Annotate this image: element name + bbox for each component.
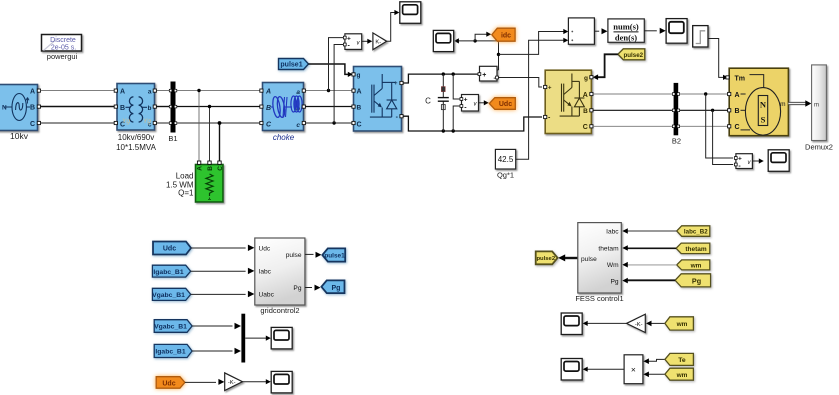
scope5 — [271, 371, 292, 393]
scope1 — [400, 2, 421, 24]
from tag wm (product row) — [665, 368, 694, 380]
wire transformer a to B1 — [157, 90, 171, 92]
svg-text:b: b — [148, 105, 152, 112]
wire choke a to converter A — [306, 90, 353, 92]
wire current meas to machine converter + — [498, 78, 542, 88]
wire pulse1 to converter g — [309, 64, 349, 74]
svg-text:-K-: -K- — [635, 322, 643, 328]
svg-text:S: S — [761, 115, 766, 125]
wire transfer fcn to scope3 — [644, 30, 657, 32]
svg-text:Udc: Udc — [259, 245, 271, 252]
svg-text:Udc: Udc — [162, 380, 175, 387]
wire converter A to B2 — [593, 93, 672, 95]
svg-text:wm: wm — [676, 372, 688, 379]
bus B1 — [169, 82, 177, 133]
current measurement block (idc) — [478, 66, 498, 82]
svg-text:gridcontrol2: gridcontrol2 — [260, 306, 299, 315]
svg-text:+: + — [738, 156, 742, 163]
wire step to machine Tm — [708, 39, 723, 78]
wire Iabc_B2 to FESS — [627, 230, 676, 232]
svg-text:thetam: thetam — [598, 245, 619, 252]
mux bar — [241, 314, 245, 363]
arrowhead into g port (machine conv) — [593, 74, 599, 80]
goto tag pulse2 (bottom) — [536, 251, 558, 264]
scope7 — [561, 359, 582, 381]
voltage measurement block (grid AC) — [343, 34, 361, 50]
arrowhead product in2 — [643, 372, 649, 378]
svg-text:10kv/690v: 10kv/690v — [118, 133, 154, 142]
PMSM machine block — [726, 68, 789, 136]
wire Te tag to product — [649, 359, 665, 361]
gain -K- (left pointing) — [627, 314, 646, 332]
svg-text:-K-: -K- — [228, 380, 236, 386]
goto tag pulse2 (top) — [618, 49, 645, 60]
svg-text:B: B — [207, 166, 214, 171]
gridcontrol2 subsystem — [255, 238, 305, 305]
junction node vmeas top — [452, 72, 455, 75]
junction node wire C to voltage probe — [332, 121, 335, 124]
svg-text:B: B — [30, 105, 35, 112]
svg-text:pulse1: pulse1 — [324, 252, 345, 259]
junction node wire A to voltage probe — [327, 89, 330, 92]
bus B2 — [672, 83, 679, 135]
svg-text:B: B — [583, 108, 588, 115]
goto tag Udc (orange, DC link) — [489, 98, 515, 110]
svg-text:C: C — [217, 166, 224, 171]
from tag Vgabc_B1 (mux row) — [154, 320, 192, 333]
arrowhead into Pg tag — [315, 285, 321, 291]
arrowhead into g port — [348, 72, 353, 77]
arrowhead mux input 2 — [235, 348, 242, 354]
svg-text:B: B — [357, 105, 362, 112]
wire Vgabc_B1 to gridcontrol — [191, 293, 246, 295]
wire source C to transformer — [41, 122, 117, 124]
svg-text:Demux2: Demux2 — [805, 143, 833, 152]
svg-text:C: C — [30, 121, 35, 128]
svg-text:+: + — [548, 86, 552, 92]
constant 42.5 block — [495, 149, 515, 169]
powergui block — [42, 35, 82, 52]
junction node cap top — [442, 72, 445, 75]
wire junction to scope2 — [459, 40, 476, 42]
arrowhead mux input 1 — [235, 323, 242, 329]
svg-text:Vgabc_B1: Vgabc_B1 — [154, 324, 187, 331]
junction node phase C tap — [218, 121, 222, 125]
svg-text:B1: B1 — [168, 134, 177, 143]
svg-text:B: B — [266, 105, 271, 112]
svg-text:m: m — [814, 102, 819, 108]
from tag wm — [677, 260, 710, 270]
wire wm tag to gain3 — [651, 322, 665, 324]
from tag Udc (blue) — [153, 242, 191, 255]
arrowhead into Udc tag — [484, 100, 489, 105]
svg-text:Iabc_B2: Iabc_B2 — [684, 228, 708, 235]
svg-text:pulse: pulse — [286, 252, 302, 259]
wire vmeas to Udc tag — [479, 102, 485, 104]
wire Pg to FESS — [627, 279, 675, 281]
grid-side converter (blue IGBT bridge) — [352, 67, 403, 132]
svg-text:powergui: powergui — [47, 52, 78, 61]
svg-text:Uabc: Uabc — [259, 292, 275, 299]
capacitor C branch — [438, 74, 449, 131]
arrowhead product input 1 — [563, 29, 568, 34]
svg-text:B: B — [735, 108, 740, 115]
svg-text:+: + — [394, 81, 398, 87]
svg-text:10*1.5MVA: 10*1.5MVA — [116, 143, 157, 152]
load tap wire phase C — [219, 123, 221, 162]
svg-text:+: + — [464, 97, 468, 104]
wire pulse2 to machine converter g — [597, 54, 618, 77]
svg-text:Load: Load — [176, 172, 194, 181]
arrowhead into pulse1 tag — [316, 252, 322, 258]
svg-text:+: + — [482, 72, 486, 79]
wire source A to transformer — [41, 90, 117, 92]
svg-text:thetam: thetam — [685, 246, 707, 253]
scope6 — [561, 313, 582, 335]
svg-text:num(s): num(s) — [613, 21, 639, 31]
arrowhead into scope7 — [583, 367, 588, 372]
wire gridcontrol Pg to Pg tag — [305, 287, 312, 289]
svg-text:Pg: Pg — [611, 279, 619, 286]
arrowhead into gain3 — [646, 321, 652, 327]
svg-text:Pg: Pg — [692, 276, 701, 285]
gain -K- (bottom left) — [225, 373, 243, 391]
arrowhead into pulse2 tag — [558, 254, 565, 261]
load tap wire phase A — [198, 91, 200, 163]
arrowhead FESS Wm — [622, 262, 628, 268]
wire probe B down to vmeas — [713, 110, 734, 164]
wire Igabc_B1 to mux — [192, 350, 232, 352]
from tag Iabc_B2 — [677, 226, 710, 237]
wire wm2 tag to product — [649, 373, 665, 375]
arrowhead FESS Pg — [622, 278, 628, 284]
wire gain2 to scope5 — [243, 381, 267, 383]
wire transformer c to B1 — [157, 122, 171, 124]
wire vmeas branch top — [453, 74, 460, 99]
arrowhead into gain2 — [218, 379, 224, 385]
load tap wire phase B — [209, 107, 211, 163]
junction node phase A tap — [197, 89, 200, 92]
step block Tm — [693, 26, 708, 47]
machine-side converter (yellow IGBT bridge) — [544, 70, 593, 133]
FESS control1 subsystem — [578, 223, 622, 293]
wire B1 to choke phase C — [177, 122, 262, 124]
svg-text:g: g — [584, 75, 588, 82]
svg-text:B2: B2 — [672, 137, 681, 146]
arrowhead into gain — [367, 39, 372, 44]
wire gain to scope1 — [387, 13, 395, 42]
wire choke b to converter B — [306, 106, 353, 108]
scope2 — [433, 30, 453, 51]
svg-text:Qg*1: Qg*1 — [497, 171, 514, 180]
wire thetam to FESS — [627, 247, 676, 249]
product block Te*wm — [624, 355, 643, 384]
wire product2 to scope7 — [587, 368, 624, 370]
svg-text:pulse: pulse — [581, 256, 597, 263]
choke block — [260, 83, 306, 131]
scope3 — [666, 19, 687, 44]
wire converter B to B2 — [593, 109, 672, 111]
svg-text:Yg: Yg — [122, 118, 130, 125]
Demux2 block — [812, 65, 827, 141]
svg-text:Tm: Tm — [735, 75, 746, 82]
svg-text:Iabc: Iabc — [259, 268, 272, 275]
from tag Pg (yellow) — [675, 274, 711, 287]
arrowhead into Demux2 — [805, 100, 811, 106]
goto tag Pg (bottom) — [321, 280, 344, 293]
svg-text:pulse2: pulse2 — [623, 52, 643, 59]
arrowhead product in1 — [643, 358, 649, 364]
svg-text:pulse2: pulse2 — [536, 256, 555, 262]
wire B1 to choke phase B — [177, 106, 262, 108]
svg-text:A: A — [265, 89, 271, 96]
wire B1 to choke phase A — [177, 90, 262, 92]
wire B2 to machine C — [680, 125, 728, 127]
wire 42.5 to product input 2 — [516, 40, 564, 159]
svg-text:K-: K- — [375, 40, 381, 46]
svg-text:A: A — [120, 89, 125, 96]
wire mux to scope4 — [245, 337, 266, 339]
wire current meas output i up — [475, 41, 498, 70]
svg-text:Yg: Yg — [143, 118, 151, 125]
arrowhead into scope8 — [759, 158, 764, 163]
arrowhead into scope4 — [266, 336, 271, 341]
junction node scope/idc split — [473, 39, 476, 42]
arrowhead FESS thetam — [622, 245, 628, 251]
arrowhead gridcontrol Udc — [248, 245, 255, 251]
DC+ rail converter to current measurement — [404, 74, 479, 83]
from tag Igabc_B1 — [152, 265, 190, 277]
three-phase source 10kv — [0, 85, 41, 131]
wire product to transfer fcn — [594, 30, 599, 32]
wire vmeas to gain — [362, 40, 368, 42]
wire idc junction to product input 1 — [499, 32, 564, 55]
svg-text:Q=1: Q=1 — [178, 189, 194, 198]
svg-text:Udc: Udc — [163, 246, 176, 253]
wire probe A down to vmeas — [706, 94, 734, 158]
wire FESS pulse to pulse2 tag — [564, 257, 578, 259]
wire B2 to machine A — [680, 93, 728, 95]
svg-text:den(s): den(s) — [615, 33, 637, 43]
svg-text:Iabc: Iabc — [606, 229, 619, 236]
gain K- (top) — [373, 33, 387, 50]
svg-text:idc: idc — [501, 32, 511, 39]
wire Udc to gain — [185, 381, 216, 383]
wire Udc to gridcontrol — [191, 247, 246, 249]
svg-text:Pg: Pg — [293, 285, 301, 292]
voltage measurement block (machine) — [734, 154, 752, 170]
wire vmeas branch bottom — [453, 106, 460, 131]
junction node machine A probe — [704, 92, 707, 95]
svg-text:Te: Te — [678, 357, 686, 364]
arrowhead into transfer fcn — [602, 28, 608, 34]
svg-text:a: a — [296, 89, 300, 96]
svg-text:A: A — [357, 89, 362, 96]
from tag Udc (orange, bottom) — [156, 377, 185, 389]
wire gain3 to scope6 — [587, 322, 626, 324]
arrowhead gridcontrol Uabc — [248, 291, 255, 297]
svg-text:Pg: Pg — [332, 285, 341, 292]
svg-text:m: m — [780, 101, 785, 108]
wire B2 to machine B — [680, 109, 728, 111]
svg-text:C: C — [735, 124, 740, 131]
junction node idc split — [497, 53, 500, 56]
svg-text:Igabc_B1: Igabc_B1 — [155, 348, 185, 355]
arrowhead product input 2 — [563, 38, 568, 43]
wire Igabc_B1 to gridcontrol — [191, 270, 246, 272]
arrowhead into scope3 — [660, 28, 666, 34]
wire source B to transformer — [41, 106, 117, 108]
svg-text:×: × — [631, 365, 636, 375]
wire probe A up to voltage measurement — [329, 38, 344, 91]
svg-text:Igabc_B1: Igabc_B1 — [153, 269, 183, 276]
arrowhead into scope6 — [583, 321, 588, 326]
svg-text:A: A — [30, 89, 35, 96]
svg-text:C: C — [583, 124, 588, 131]
svg-text:2e-05 s.: 2e-05 s. — [51, 45, 76, 52]
arrowhead gridcontrol Iabc — [248, 268, 255, 274]
arrowhead FESS Iabc — [622, 228, 628, 234]
DC- rail converter to machine converter — [404, 116, 543, 131]
load block — [196, 161, 225, 202]
from tag thetam — [676, 243, 710, 254]
svg-text:A: A — [197, 166, 204, 171]
svg-text:A: A — [735, 92, 740, 99]
goto tag pulse1 (bottom) — [322, 248, 345, 261]
wire transformer b to B1 — [157, 106, 171, 108]
wire gridcontrol pulse to pulse1 tag — [305, 253, 314, 255]
svg-text:Wm: Wm — [607, 262, 619, 269]
wire wm to FESS — [627, 264, 676, 266]
from tag wm (gain row) — [665, 317, 694, 330]
svg-text:g: g — [357, 72, 361, 79]
from tag Vgabc_B1 — [152, 288, 191, 300]
wire converter C to B2 — [593, 125, 672, 127]
from tag Te — [665, 353, 694, 365]
svg-text:a: a — [148, 89, 152, 96]
svg-text:C: C — [357, 122, 362, 129]
svg-text:10kv: 10kv — [10, 131, 29, 141]
junction node cap bottom — [442, 129, 445, 132]
arrowhead into scope1 — [394, 10, 399, 15]
svg-text:wm: wm — [676, 321, 688, 328]
scope8 — [768, 150, 789, 172]
svg-text:42.5: 42.5 — [498, 155, 514, 164]
wire junction up to idc tag — [475, 34, 486, 41]
scope4 — [271, 327, 292, 349]
transfer function num(s)/den(s) — [608, 19, 644, 43]
svg-text:wm: wm — [690, 262, 702, 269]
svg-text:FESS control1: FESS control1 — [575, 294, 623, 303]
arrowhead into scope2 — [454, 38, 459, 43]
svg-text:N: N — [2, 105, 7, 112]
wire Vgabc_B1 to mux — [192, 325, 232, 327]
junction node phase B tap — [208, 105, 211, 108]
wire probe C up to voltage measurement — [334, 45, 343, 124]
svg-text:N: N — [760, 100, 767, 110]
svg-text:+: + — [347, 35, 351, 42]
goto tag pulse1 (top) — [279, 59, 309, 70]
arrowhead into Tm port — [723, 75, 728, 80]
transformer 10kv/690v — [114, 84, 156, 131]
svg-text:Vgabc_B1: Vgabc_B1 — [152, 292, 185, 299]
junction node vmeas bottom — [452, 129, 455, 132]
product block (power calc) — [568, 18, 594, 44]
svg-text:choke: choke — [273, 133, 295, 142]
svg-text:c: c — [296, 122, 300, 129]
voltage measurement block (DC link) — [460, 95, 479, 112]
from tag Igabc_B1 (mux row) — [154, 344, 192, 357]
wire machine m to Demux2 (vector) — [788, 102, 806, 105]
arrowhead into scope5 — [266, 379, 271, 384]
svg-text:Udc: Udc — [499, 101, 512, 108]
svg-text:B: B — [120, 105, 125, 112]
wire vmeas to scope8 — [752, 160, 759, 162]
junction node machine B probe — [711, 109, 714, 112]
svg-text:Discrete: Discrete — [50, 37, 76, 44]
goto tag idc (orange) — [492, 28, 515, 41]
svg-text:pulse1: pulse1 — [280, 62, 302, 69]
wire choke c to converter C — [306, 122, 353, 124]
arrowhead into idc tag — [486, 32, 491, 37]
svg-text:C: C — [425, 97, 431, 106]
